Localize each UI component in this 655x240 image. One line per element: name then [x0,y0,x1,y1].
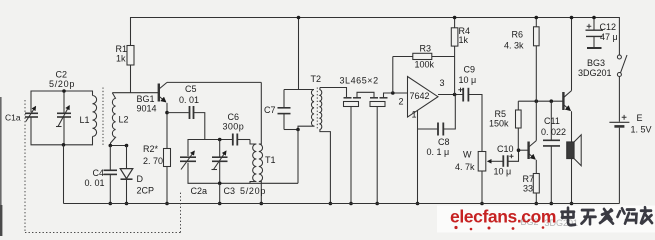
svg-text:C4: C4 [93,168,105,178]
wire tank ground drop [63,145,65,204]
node R6 collector junction [535,99,539,103]
node D ground [125,202,129,206]
svg-text:C2: C2 [56,70,68,80]
svg-text:7642: 7642 [410,91,430,101]
svg-text:R1: R1 [116,44,128,54]
capacitor C2a [180,151,196,169]
svg-text:BG3: BG3 [587,58,605,68]
svg-text:C3: C3 [224,186,236,196]
svg-text:0. 01: 0. 01 [85,178,105,188]
svg-text:5/20p: 5/20p [49,79,75,89]
transistor BG1 [159,82,167,101]
wire box ground leg [219,183,221,203]
capacitor C12 electrolytic [586,18,604,49]
svg-text:10 μ: 10 μ [459,75,477,85]
inductor L1 [93,96,97,137]
svg-text:R7: R7 [523,174,535,184]
logo chinese characters [562,207,653,225]
capacitor C4 [104,146,118,204]
svg-text:W: W [463,150,472,160]
svg-text:1: 1 [412,110,417,120]
scan edge artifact [0,97,2,236]
battery E [609,77,629,204]
node R7 ground [535,202,539,206]
wire BG1 emitter drop [166,103,168,149]
node W ground [480,202,484,206]
svg-text:100k: 100k [415,60,435,70]
node filter B2 ground [375,202,379,206]
watermark band [437,206,655,233]
wire top supply rail [131,18,620,56]
wire filter link [357,92,374,98]
svg-text:47 μ: 47 μ [600,32,618,42]
wire T2 core dashed [316,88,318,131]
capacitor C6 [233,134,238,146]
capacitor C8 [418,95,456,136]
svg-text:1. 5V: 1. 5V [631,125,652,135]
transformer T1 secondary winding [259,82,263,203]
wire pin3 output [438,94,463,96]
transistor BG3 [563,18,571,143]
ceramic filter B1 3L465 [344,98,362,204]
node speaker ground [570,202,574,206]
resistor R1 [127,46,134,66]
wire ferrite core dashed [102,88,104,147]
node C11 ground [550,202,554,206]
node T2 primary bottom junction [296,128,300,132]
wire oscillator box bottom [188,163,298,184]
ceramic filter B2 3L465 [370,98,388,204]
svg-text:C1a: C1a [5,113,21,123]
svg-text:3: 3 [440,78,445,88]
wire BG2 collector node [518,100,563,102]
wire R1 bottom lead to BG1 base [130,65,132,93]
svg-text:C12: C12 [600,22,617,32]
capacitor C5 [167,106,205,140]
svg-text:1k: 1k [116,54,126,64]
svg-text:C9: C9 [464,65,476,75]
node output junction [453,93,457,97]
svg-text:4. 3k: 4. 3k [504,41,524,51]
svg-text:2CP: 2CP [137,186,155,196]
svg-text:150k: 150k [489,119,509,129]
resistor R7 [533,174,539,194]
svg-text:C11: C11 [544,116,560,126]
svg-text:R3: R3 [420,44,432,54]
resistor R6 [534,18,540,102]
inductor L2 [111,93,116,146]
diode D 2CP [120,146,133,204]
svg-text:0. 1 μ: 0. 1 μ [427,147,450,157]
switch K [617,55,627,77]
node T2 secondary ground [329,202,333,206]
capacitor C10 electrolytic [499,150,519,167]
svg-text:0. 01: 0. 01 [179,95,199,105]
node C11 junction [550,99,554,103]
svg-text:C6: C6 [228,112,240,122]
wire dashed antenna box [25,100,181,233]
wire T2 primary bottom to box bottom [297,130,299,184]
resistor R4 [451,18,458,95]
node pin1 ground [416,202,420,206]
wire tank bottom [31,118,93,145]
svg-text:T1: T1 [265,155,276,165]
capacitor C11 [543,101,560,203]
resistor R3 [393,53,455,93]
resistor R2 [164,149,171,167]
capacitor C2 trimmer [56,91,71,145]
svg-text:C8: C8 [438,137,450,147]
svg-text:L2: L2 [119,115,129,125]
transistor BG2 [529,101,537,173]
node tank bottom junction [62,143,66,147]
logo elecfans.com [450,207,556,231]
op-amp U1 7642 [408,77,439,118]
node C12 rail junction [592,16,596,20]
wire BG2 base [519,149,529,151]
svg-text:9014: 9014 [137,104,157,114]
svg-text:R6: R6 [512,30,524,40]
svg-text:300p: 300p [223,122,245,132]
wire tank top [31,91,93,112]
svg-text:C10: C10 [497,144,514,154]
svg-text:elecfans.com: elecfans.com [450,207,556,227]
node R4 rail junction [453,16,457,20]
capacitor C1a [25,107,38,122]
node R2 ground [165,202,169,206]
resistor R5 [516,101,522,150]
wire BG1 collector rail to T1 [167,81,261,83]
wire T2 primary top node [284,89,314,91]
transformer T1 primary winding [250,140,256,184]
node T1 secondary ground [260,202,264,206]
node C2 top junction [62,89,66,93]
svg-text:4. 7k: 4. 7k [455,162,475,172]
node R6 rail junction [535,16,539,20]
capacitor C9 electrolytic [458,88,482,152]
svg-text:0. 022: 0. 022 [541,127,566,137]
wire filter output to IC input [384,93,408,98]
node C3 top junction [218,138,222,142]
svg-text:2. 70: 2. 70 [143,156,163,166]
node box bottom junction [218,182,222,186]
svg-text:C5: C5 [185,84,197,94]
svg-text:T2: T2 [311,74,322,84]
svg-text:3DG201: 3DG201 [578,68,612,78]
wire L2 cold node [110,145,126,147]
wire oscillator box top [188,140,233,157]
svg-text:5/20p: 5/20p [240,186,266,196]
node C4 ground [109,202,113,206]
svg-text:BG1: BG1 [137,94,155,104]
svg-text:R5: R5 [495,109,507,119]
transformer T2 primary winding [298,90,314,130]
svg-text:E: E [637,113,643,123]
capacitor C7 [278,90,299,130]
node L2/C4 junction [109,144,113,148]
node R5 base junction [517,148,521,152]
potentiometer W [478,152,498,204]
svg-text:2: 2 [399,97,404,107]
wire BG1 base [112,92,158,94]
wire T2 secondary top to filter [320,88,347,98]
svg-text:1k: 1k [459,35,469,45]
svg-text:C7: C7 [264,105,276,115]
speaker [567,135,581,204]
node R3 input junction [391,91,395,95]
wire B+ drop to T2 [298,18,300,90]
node box ground [218,202,222,206]
node labels and values [5,22,652,196]
node filter B1 ground [349,202,353,206]
node D top junction [125,144,129,148]
wire R7 ground [535,193,537,204]
node B+ rail junction [297,16,301,20]
wire bottom ground rail [64,203,620,205]
wire R2 bottom [166,167,168,204]
node emitter/C5 junction [165,111,169,115]
svg-text:3L465×2: 3L465×2 [340,76,379,86]
svg-text:C2a: C2a [191,186,208,196]
transformer T2 secondary winding [320,88,331,204]
node BG3 rail junction [570,16,574,20]
svg-text:33: 33 [523,184,533,194]
svg-text:R2*: R2* [143,144,159,154]
wire pin1 ground [417,110,419,203]
svg-text:D: D [137,174,144,184]
svg-text:L1: L1 [80,115,90,125]
capacitor C3 trimmer [212,140,228,184]
svg-text:10 μ: 10 μ [494,167,512,177]
